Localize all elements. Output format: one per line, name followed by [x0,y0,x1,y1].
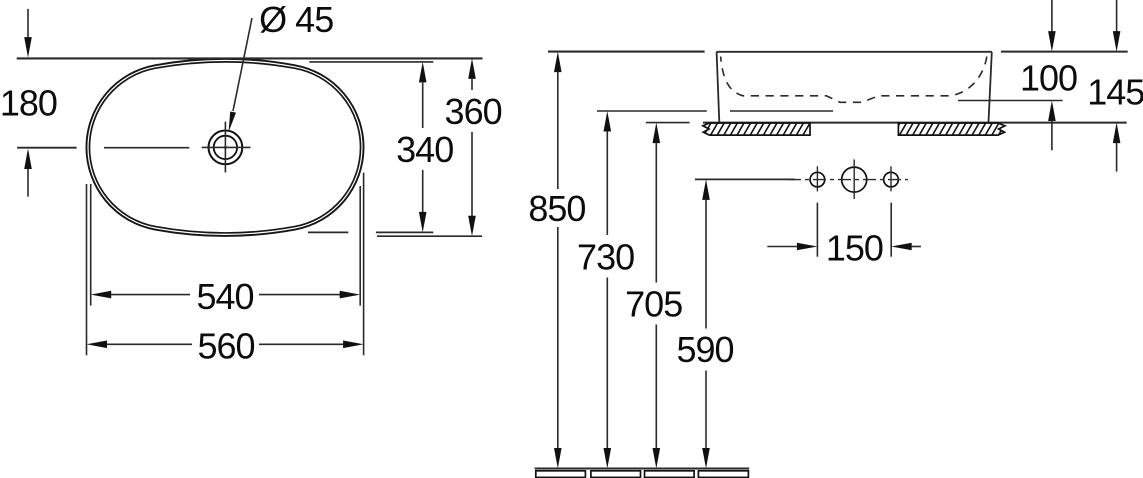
svg-text:590: 590 [676,329,733,370]
svg-text:540: 540 [196,276,253,317]
drain crosshair horizontal [202,146,251,148]
ext line vertical x=86.5 (560 left) [86,184,88,355]
svg-text:340: 340 [396,129,453,170]
dim 590 line upper [705,199,707,328]
dim 100 lower tail [1051,121,1053,151]
svg-text:360: 360 [445,91,502,132]
left hatch bar outline [703,123,810,135]
bottom extension line inner y=232.4 seg1 [308,231,348,233]
top extension line left (850) [548,51,705,53]
ext line 730 (y=111) [597,110,707,112]
dim 180 upper arrow (down) [24,37,32,58]
faucet holes horizontal centerline [788,179,908,181]
dim 705 top arrow (up) [653,123,661,144]
ext line vertical x=363.6 (560 right) [363,173,365,356]
left hatch bar hatching [691,123,823,135]
dim 560 line left part [106,343,192,345]
dim 145 lower tail [1116,143,1118,172]
floor box 1 [536,471,586,478]
dim 705 bottom arrow (down) [653,448,661,469]
floor box 4 [698,471,748,478]
dim 340 top arrow (up) [419,62,427,83]
top extension line (outer, y=58.4) [17,57,483,59]
dim 150 right arrow (points left) [891,243,912,251]
dim 100 lower arrow (up) [1048,101,1056,122]
dim 145 lower arrow (up) [1113,123,1121,144]
floor box 3 [645,471,695,478]
dim 850 line upper [557,72,559,189]
leader arrowhead [229,112,236,133]
top extension line right (y=51.6) [1001,51,1128,53]
svg-text:560: 560 [197,325,254,366]
bottom extension line inner y=232.4 seg2 [376,231,433,233]
dim 730 top arrow (up) [604,111,612,132]
inner bowl dashed outline [721,57,987,103]
dim 100 upper arrow (down) [1048,31,1056,51]
ext line vertical x=90.7 (540 left) [90,184,92,306]
dim 340 line upper [422,82,424,128]
dim 540 line left part [110,294,190,296]
dim 340 line lower [422,170,424,213]
dim 340 bottom arrow (down) [419,212,427,233]
dim 360 line upper [471,78,473,90]
dim 540 left arrow [91,291,112,299]
dim 540 line right part [259,294,341,296]
drain crosshair vertical [224,122,226,173]
drain inner circle [214,136,237,159]
dim 850 top arrow (up) [554,52,562,73]
dim 180 lower arrow (up) [24,149,32,170]
bottom extension line outer y=236.2 [377,235,482,237]
bowl bottom solid line (left half) [730,110,833,112]
dim 590 line lower [705,371,707,449]
mounting surface long line y=122.6 [703,122,1127,124]
svg-text:150: 150 [826,227,883,268]
dim 150 left arrow (points right) [797,243,818,251]
right hatch bar outline [898,123,1005,135]
svg-text:730: 730 [577,236,634,277]
svg-text:145: 145 [1087,72,1143,113]
ext line 705 (y=122.6) [646,122,690,124]
ext line 590 (y=179.4) [695,178,795,180]
dim 150 right tail [911,246,921,248]
dim 360 line lower [471,132,473,216]
dim 360 bottom arrow (down) [468,216,476,237]
dim 560 line right part [259,343,344,345]
leader line to drain [233,18,252,111]
dim 730 line lower [606,278,608,449]
svg-text:180: 180 [0,82,57,123]
drain center dot [224,146,227,149]
basin right wall [989,52,992,122]
top extension line (inner, y=61.9) [309,61,433,63]
svg-text:705: 705 [625,283,682,324]
dim 145 upper arrow (down) [1113,31,1121,51]
dim 850 line lower [557,227,559,449]
floor line [535,468,750,470]
dim 100 upper tail [1051,0,1053,32]
floor box 2 [591,471,641,478]
svg-text:100: 100 [1020,58,1077,99]
dim 730 bottom arrow (down) [604,448,612,469]
dim 145 upper tail [1116,0,1118,32]
ext line vertical x=360.2 (540 right) [359,186,361,306]
basin top rim line [716,51,992,53]
dim 560 left arrow [87,341,108,349]
faucet right vertical tick [890,166,892,191]
dim 590 top arrow (up) [702,179,710,200]
dim 180 lower tail [27,169,29,197]
faucet left vertical tick [816,166,818,191]
ext vertical from left hole to 150 dim [816,203,818,257]
basin inner rim (oval) [89,62,360,233]
faucet middle vertical tick [853,159,855,199]
svg-text:850: 850 [528,188,585,229]
centerline middle segment [104,147,189,149]
basin outer rim (oval) [86,59,363,236]
ext vertical from right hole to 150 dim [890,203,892,257]
faucet hole middle circle [842,167,867,192]
faucet hole right circle [884,172,899,187]
dim 540 right arrow [340,291,361,299]
faucet hole left circle [810,172,825,187]
right hatch bar hatching [886,123,1012,135]
dim 730 line upper [606,131,608,235]
bowl depth solid line (right, 100 ext) [958,100,1063,102]
dim 150 left tail [767,246,797,248]
dim 705 line upper [655,143,657,283]
svg-text:Ø 45: Ø 45 [259,0,333,40]
dim 850 bottom arrow (down) [554,448,562,469]
drain outer circle [209,131,243,165]
dim 590 bottom arrow (down) [702,448,710,469]
dim 560 right arrow [343,341,364,349]
basin left wall [717,52,720,122]
centerline left short segment [17,147,77,149]
dim 705 line lower [655,325,657,449]
dim 360 top arrow (up) [468,58,476,79]
dim 180 upper tail [27,9,29,39]
